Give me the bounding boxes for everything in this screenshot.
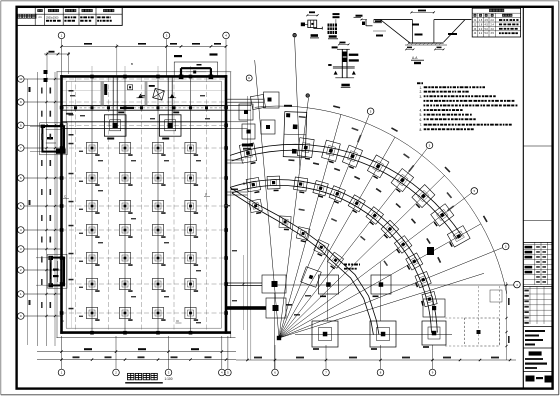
footing J6-3 xyxy=(152,278,165,291)
strip footing band 2 xyxy=(62,122,227,129)
footing J2-3 xyxy=(152,172,165,185)
title strip edge line xyxy=(522,7,524,388)
svg-text:4: 4 xyxy=(516,283,518,287)
grid bubble left 5 xyxy=(18,175,62,182)
inner wall offset line xyxy=(71,81,73,328)
svg-text:4: 4 xyxy=(221,371,223,375)
footing J3-1 xyxy=(86,200,99,213)
vertical line col8 xyxy=(380,262,382,321)
radial grid line theta=72.5 xyxy=(279,273,484,338)
svg-text:C: C xyxy=(62,319,65,323)
dim line above building xyxy=(60,43,227,48)
svg-text:7: 7 xyxy=(325,371,327,375)
big ramp footing xyxy=(283,112,307,158)
svg-text:3.: 3. xyxy=(420,95,423,99)
grid bubble top 1 xyxy=(58,32,65,75)
grid bubble left 8 xyxy=(18,246,62,253)
beam stub y161 xyxy=(226,159,244,161)
svg-text:2.: 2. xyxy=(420,90,423,94)
wall footing outline left xyxy=(56,72,58,339)
grid bubble bottom 7 xyxy=(323,345,330,376)
ring footing middle theta=53.0 xyxy=(392,236,412,255)
outer reference arc xyxy=(255,106,507,294)
footing J1-4 xyxy=(185,142,198,155)
ring footing outer theta=8.0 xyxy=(297,138,314,160)
extra footing block b xyxy=(242,124,255,139)
section E-E xyxy=(328,42,359,88)
svg-text:4.5: 4.5 xyxy=(485,19,489,22)
row1 footing a xyxy=(319,275,339,297)
footing J7-2 xyxy=(119,307,132,320)
svg-text:2.0: 2.0 xyxy=(491,19,495,22)
ring footing descend theta=25.0 xyxy=(313,240,329,258)
big footing at x=170.2 xyxy=(159,112,181,140)
center area dim marks xyxy=(286,304,292,306)
svg-text:J-1: J-1 xyxy=(38,15,42,19)
svg-text:2.4: 2.4 xyxy=(491,23,495,26)
ring footing middle theta=75.5 xyxy=(420,292,438,308)
svg-text:7.: 7. xyxy=(420,123,423,127)
footing J6-1 xyxy=(86,278,99,291)
drawing title xyxy=(125,373,173,382)
footing right of wall b xyxy=(226,298,286,318)
ramp top footing c xyxy=(250,94,265,109)
corner schedule table xyxy=(472,8,520,37)
ramp top footing a xyxy=(226,92,279,108)
svg-text:3: 3 xyxy=(168,371,170,375)
radial grid line theta=15.5 xyxy=(279,114,341,338)
svg-text:4: 4 xyxy=(20,228,22,232)
vertical line col6 xyxy=(274,293,276,369)
svg-text:2.0: 2.0 xyxy=(479,28,483,31)
footing bottom row 3 xyxy=(422,321,446,348)
detail rebar column xyxy=(328,13,340,39)
arc dim text xyxy=(284,105,292,107)
wall bottom dim column xyxy=(243,255,245,330)
footing J7-4 xyxy=(185,307,198,320)
shaft double lines x115 xyxy=(112,77,114,128)
svg-text:D: D xyxy=(248,77,250,80)
ring footing outer theta=38.0 xyxy=(390,169,414,194)
row1 footing b xyxy=(371,275,391,297)
radial grid line theta=7.0 xyxy=(279,94,310,338)
svg-text:5: 5 xyxy=(474,189,476,193)
footing J4-4 xyxy=(185,224,198,237)
left dimension lines xyxy=(28,70,57,346)
ring footing outer theta=22.0 xyxy=(341,145,362,169)
ring footing middle theta=60.5 xyxy=(404,253,423,271)
ring footing middle theta=22.0 xyxy=(328,186,345,205)
stair shaft protrusion xyxy=(174,62,217,79)
grid bubble bottom 6 xyxy=(272,345,279,376)
east horizontal line xyxy=(295,334,452,336)
scattered dim texts fan xyxy=(288,105,487,266)
wall left xyxy=(60,75,63,334)
svg-text:3: 3 xyxy=(166,34,168,38)
svg-text:A-A: A-A xyxy=(412,56,418,60)
ring footing middle theta=-2.0 xyxy=(267,176,280,191)
svg-text:5.0: 5.0 xyxy=(485,28,489,31)
ramp band inner line1 xyxy=(230,188,379,335)
svg-text:9: 9 xyxy=(432,371,434,375)
svg-text:5.: 5. xyxy=(420,113,423,117)
svg-text:5.0: 5.0 xyxy=(485,32,489,35)
svg-text:J4: J4 xyxy=(474,32,477,35)
ring footing middle theta=8.0 xyxy=(293,177,307,194)
svg-text:9: 9 xyxy=(20,100,22,104)
footing J3-2 xyxy=(119,200,132,213)
grid bubble bottom 1 xyxy=(58,336,65,376)
fan center blob xyxy=(277,336,281,340)
grid bubble bottom 8 xyxy=(377,345,384,376)
footing J1-1 xyxy=(86,142,99,155)
radial grid line theta=60.5 xyxy=(279,224,481,338)
grid bubble left 1 xyxy=(18,76,62,83)
ring arc middle b xyxy=(230,180,437,333)
ring footing descend theta=-10.0 xyxy=(249,199,263,215)
footing J6-4 xyxy=(185,278,198,291)
svg-text:J1: J1 xyxy=(474,19,477,22)
footing J2-4 xyxy=(185,172,198,185)
ring footing outer theta=15.5 xyxy=(321,140,340,164)
grid lines horizontal xyxy=(62,79,227,313)
ring footing outer theta=60.5 xyxy=(445,226,470,249)
svg-text:2: 2 xyxy=(115,371,117,375)
footing J1-3 xyxy=(152,142,165,155)
ring footing descend theta=36.0 xyxy=(326,252,344,270)
svg-text:1.8: 1.8 xyxy=(479,23,483,26)
footing J5-2 xyxy=(119,252,132,265)
ring footing descend theta=13.0 xyxy=(296,227,310,243)
radial grid line theta=38.0 xyxy=(279,142,433,338)
grid bubble bottom 4 xyxy=(219,336,226,376)
svg-text:8: 8 xyxy=(380,371,382,375)
svg-text:5: 5 xyxy=(20,204,22,208)
grid bubble left 10 xyxy=(18,291,62,298)
pit protrusion 1 xyxy=(30,123,67,155)
grid bubble D line xyxy=(246,75,252,81)
svg-text:4: 4 xyxy=(225,34,227,38)
svg-text:3.5: 3.5 xyxy=(491,32,495,35)
svg-text:6: 6 xyxy=(274,371,276,375)
footing J4-3 xyxy=(152,224,165,237)
wall pilasters xyxy=(60,75,228,335)
svg-text:4.: 4. xyxy=(420,109,423,113)
ramp label cluster xyxy=(242,144,253,147)
footing J6-2 xyxy=(119,278,132,291)
svg-text:0: 0 xyxy=(20,314,22,318)
grid bubble bottom 2 xyxy=(113,336,120,376)
footing J5-1 xyxy=(86,252,99,265)
ring footing middle theta=38.0 xyxy=(364,207,383,227)
detail bar xyxy=(354,15,373,26)
grid bubble left 9 xyxy=(18,267,62,274)
svg-text:5: 5 xyxy=(505,245,507,249)
east line 2 with bubble xyxy=(274,281,520,288)
footing J4-2 xyxy=(119,224,132,237)
svg-text:10: 10 xyxy=(19,77,23,81)
radial grid line theta=68.0 xyxy=(279,243,509,338)
dim text protrusion xyxy=(174,55,182,57)
footing J3-3 xyxy=(152,200,165,213)
ring footing outer theta=30.0 xyxy=(366,155,389,180)
dashed future footing zone xyxy=(445,286,502,346)
grid bubble left 7 xyxy=(18,227,62,234)
ring footing outer theta=-9.5 xyxy=(239,143,257,166)
wall footing outline top xyxy=(57,71,232,73)
svg-text:3.0: 3.0 xyxy=(491,28,495,31)
beam stub y193 xyxy=(226,191,248,193)
ring arc middle a xyxy=(232,185,432,332)
ring footing outer theta=53.0 xyxy=(429,204,454,228)
grid bubble left 3 xyxy=(18,122,62,129)
footing J1-2 xyxy=(119,142,132,155)
row dim smears xyxy=(69,90,84,317)
footing J2-1 xyxy=(86,172,99,185)
ring footing descend theta=3.0 xyxy=(279,216,291,231)
dim above top-left corner xyxy=(44,51,70,74)
ramp column line with bubble xyxy=(295,38,300,171)
footing bottom row 2 xyxy=(370,321,396,350)
svg-text:4.5: 4.5 xyxy=(485,23,489,26)
ramp band outer line1 xyxy=(230,144,462,236)
big footing at x=115.2 xyxy=(104,112,126,140)
svg-text:B: B xyxy=(131,62,133,66)
bottom dimension line fan xyxy=(236,357,516,362)
footing mid c xyxy=(301,267,322,288)
svg-text:J3: J3 xyxy=(474,28,477,31)
wall footing outline bottom xyxy=(57,337,236,339)
svg-text:1.: 1. xyxy=(420,86,423,90)
extra footing block a xyxy=(239,104,253,120)
strip footing band 1 xyxy=(62,106,227,115)
svg-text:7: 7 xyxy=(20,146,22,150)
svg-text:D: D xyxy=(177,319,180,323)
minor grid lines vertical xyxy=(76,77,207,332)
band1 extension right xyxy=(226,105,251,107)
grid bubble bottom 3 xyxy=(165,336,172,376)
grid bubble left 2 xyxy=(18,99,62,106)
ring footing middle theta=15.5 xyxy=(312,180,328,198)
footing J7-3 xyxy=(152,307,165,320)
ring footing middle theta=30.0 xyxy=(347,195,365,214)
wall bottom xyxy=(60,331,231,334)
svg-text:1: 1 xyxy=(20,292,22,296)
detail Z-1 xyxy=(301,11,323,38)
grid bubble top 2 xyxy=(163,32,170,76)
dark block near ring xyxy=(427,247,434,255)
grid stubs above wall xyxy=(92,66,191,75)
ramp top footing b xyxy=(261,120,275,134)
footing above row 3 xyxy=(423,299,445,317)
grid bubble left 4 xyxy=(18,145,62,152)
footing J7-1 xyxy=(86,307,99,320)
title strip blocks xyxy=(523,146,552,383)
vertical line col7 xyxy=(327,250,329,321)
svg-text:5: 5 xyxy=(227,371,229,375)
svg-text:J2: J2 xyxy=(474,23,477,26)
notes text block xyxy=(417,82,517,132)
pit section A-A xyxy=(373,10,471,65)
column grid lines vertical xyxy=(92,77,191,332)
svg-text:1: 1 xyxy=(61,34,63,38)
wall right xyxy=(225,75,228,334)
ring footing middle theta=68.0 xyxy=(413,272,432,289)
ring footing middle theta=45.5 xyxy=(379,220,398,239)
svg-text:1:100: 1:100 xyxy=(165,377,173,381)
ring footing middle theta=-9.5 xyxy=(246,177,261,194)
scattered dim texts building xyxy=(70,95,237,323)
footing J5-4 xyxy=(185,252,198,265)
legend table xyxy=(17,7,122,25)
shaft walls upper zone xyxy=(101,81,177,105)
svg-text:2: 2 xyxy=(20,268,22,272)
svg-text:5: 5 xyxy=(370,110,372,114)
radial grid line theta=53.0 xyxy=(279,188,478,338)
grid bubble bottom 5 xyxy=(225,336,232,376)
wall footing outline right xyxy=(230,72,232,339)
vertical line col9 xyxy=(432,296,434,321)
svg-text:C: C xyxy=(64,195,67,199)
svg-text:2500x2500: 2500x2500 xyxy=(46,16,59,19)
svg-text:3: 3 xyxy=(20,247,22,251)
svg-text:6.: 6. xyxy=(420,118,423,122)
ring footing outer theta=45.5 xyxy=(410,185,435,210)
shaft double lines x170 xyxy=(167,77,169,128)
radial grid line theta=-5.0 xyxy=(255,60,279,338)
svg-text:1: 1 xyxy=(61,371,63,375)
svg-text:6: 6 xyxy=(20,176,22,180)
band2 extension right xyxy=(226,121,248,123)
svg-text:1.5: 1.5 xyxy=(479,19,483,22)
pit protrusion 2 xyxy=(36,254,67,288)
svg-text:8: 8 xyxy=(20,124,22,128)
grid line D vertical pair xyxy=(247,96,249,360)
radial grid line theta=45.5 xyxy=(279,175,445,338)
footing bottom row 1 xyxy=(312,321,338,350)
ramp band outer line2 xyxy=(232,150,458,239)
bottom dimension lines building xyxy=(37,348,236,361)
footing J4-1 xyxy=(86,224,99,237)
svg-text:5: 5 xyxy=(429,144,431,148)
grid bubble left 6 xyxy=(18,203,62,210)
dim text cluster row1 xyxy=(344,264,347,266)
grid bubble top 3 xyxy=(223,32,230,75)
radial grid line theta=30.0 xyxy=(279,137,395,338)
radial grid line theta=22.0 xyxy=(279,108,374,338)
footing J2-2 xyxy=(119,172,132,185)
ramp band inner line2 xyxy=(232,193,374,335)
right dim line xyxy=(505,282,509,360)
wall top xyxy=(60,75,227,78)
svg-text:D: D xyxy=(205,193,208,197)
grid bubble left 11 xyxy=(18,313,62,320)
footing J5-3 xyxy=(152,252,165,265)
footing right of wall a xyxy=(226,275,286,293)
svg-text:2.2: 2.2 xyxy=(479,32,483,35)
sheet border outer xyxy=(1,0,559,2)
footing J3-4 xyxy=(185,200,198,213)
svg-text:8.: 8. xyxy=(420,128,423,132)
grid bubble bottom 9 xyxy=(429,345,436,376)
